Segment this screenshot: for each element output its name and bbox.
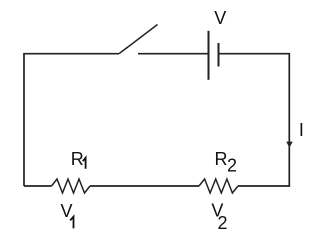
wire top right segment [219, 53, 290, 55]
svg-text:R: R [71, 149, 84, 169]
resistor R1 label subscript 1 [83, 158, 86, 169]
switch S1 blade [119, 25, 158, 54]
resistor R2 [199, 179, 238, 193]
current I arrowhead [286, 142, 293, 148]
wire bottom left segment [24, 185, 52, 187]
wire top middle segment [138, 53, 208, 55]
battery V short plate [218, 43, 220, 67]
wire bottom middle segment [90, 185, 199, 187]
svg-text:2: 2 [227, 155, 237, 175]
battery V long plate [208, 31, 210, 80]
wire bottom right segment [238, 185, 290, 187]
svg-text:I: I [299, 120, 304, 140]
svg-text:V: V [214, 8, 226, 28]
svg-text:V: V [61, 201, 73, 221]
svg-text:R: R [215, 149, 228, 169]
node V1 label subscript 1 [70, 217, 73, 229]
svg-text:2: 2 [218, 213, 228, 233]
wire left vertical [23, 54, 25, 186]
wire top left segment [23, 53, 119, 55]
resistor R1 [52, 179, 91, 193]
wire right vertical [288, 53, 290, 187]
